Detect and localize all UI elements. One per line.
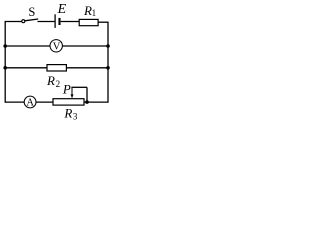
svg-text:V: V (53, 41, 61, 52)
node left R2 junction (3, 66, 7, 70)
svg-text:1: 1 (92, 8, 97, 18)
label E (57, 2, 67, 17)
wiper P arrowhead (71, 94, 74, 98)
svg-text:P: P (62, 81, 71, 96)
wire switch to battery (38, 21, 55, 23)
svg-text:E: E (57, 2, 67, 17)
wire left rail to R2 (5, 67, 47, 69)
svg-text:S: S (28, 5, 35, 19)
battery E long plate (54, 14, 56, 28)
node right R2 junction (106, 66, 110, 70)
wiper P arrow shaft (71, 87, 73, 95)
resistor R2 (47, 65, 66, 71)
wire R1 to top-right corner (98, 21, 108, 23)
switch S pivot (22, 20, 25, 23)
label R3 (63, 106, 78, 122)
wire ammeter to R3 (36, 101, 53, 103)
wire wiper horizontal (71, 86, 87, 88)
svg-text:3: 3 (73, 111, 78, 121)
svg-text:R: R (46, 73, 55, 88)
label R1 (83, 3, 96, 18)
battery E short plate (58, 18, 60, 25)
svg-text:2: 2 (56, 79, 61, 89)
wire battery to R1 (61, 21, 79, 23)
wire bottom-left to ammeter (5, 101, 24, 103)
switch S blade (25, 19, 39, 21)
wire R3 to bottom-right corner (84, 101, 109, 103)
rheostat R3 (53, 99, 84, 105)
label P (62, 81, 71, 96)
node left voltmeter junction (3, 44, 7, 48)
voltmeter V (50, 40, 62, 53)
wire wiper down to bottom rail (86, 87, 88, 102)
ammeter A (24, 96, 36, 109)
node wiper junction (85, 100, 89, 104)
wire right rail (107, 22, 109, 103)
wire left rail (4, 21, 6, 103)
wire voltmeter to right rail (62, 45, 108, 47)
resistor R1 (79, 19, 98, 25)
label R2 (46, 73, 60, 89)
node right voltmeter junction (106, 44, 110, 48)
svg-text:R: R (63, 106, 72, 121)
wire R2 to right rail (66, 67, 108, 69)
wire left rail to voltmeter (5, 45, 50, 47)
svg-text:A: A (26, 98, 34, 109)
label S (28, 5, 35, 19)
wire top-left to switch (5, 21, 22, 23)
